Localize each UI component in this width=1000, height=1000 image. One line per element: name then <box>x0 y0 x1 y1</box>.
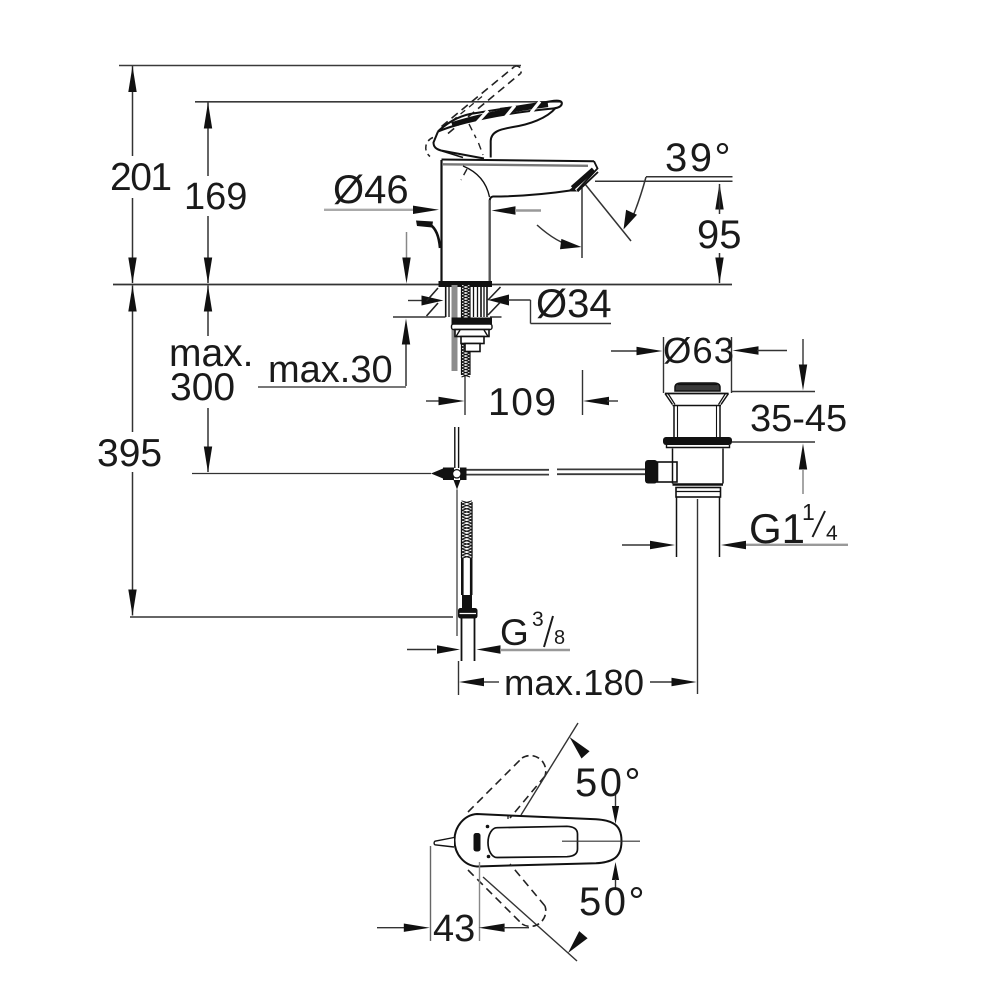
label 35-45 <box>750 398 847 440</box>
topview dashed lever down <box>468 864 546 926</box>
wire top reference line 201 <box>119 65 521 67</box>
faucet lever solid <box>438 101 562 158</box>
mounting washer <box>452 318 493 330</box>
wire spout vertical extension <box>581 188 583 258</box>
deck hatch left <box>427 288 439 316</box>
dim 50deg lower leg <box>483 877 588 961</box>
faucet hidden cartridge dashes <box>461 124 483 180</box>
dim 95 vertical <box>715 184 723 284</box>
topview hinge dots <box>486 825 491 859</box>
drain tailpipe <box>677 497 720 557</box>
label 201 <box>110 156 171 199</box>
label max30 <box>268 349 393 391</box>
label 109 <box>488 381 558 424</box>
horizontal actuating rod <box>467 469 646 474</box>
topview limiter tab <box>434 838 454 848</box>
dim D63 <box>611 337 787 393</box>
dim 50deg upper leg <box>521 723 590 815</box>
svg-text:50°: 50° <box>579 880 647 924</box>
svg-text:8: 8 <box>554 627 565 649</box>
label max300 <box>169 332 254 409</box>
svg-text:169: 169 <box>184 176 247 218</box>
label 50deg lower <box>579 880 647 924</box>
mounting nut <box>455 330 489 352</box>
label 169 <box>184 176 247 218</box>
svg-text:201: 201 <box>110 156 171 199</box>
faucet body outline <box>442 160 598 283</box>
label D34 <box>536 282 612 326</box>
drain plug cap <box>675 383 720 391</box>
faucet aerator tip <box>569 170 598 192</box>
topview dashed lever up <box>468 756 546 818</box>
label 43 <box>433 908 475 950</box>
topview centerline <box>562 840 640 842</box>
label G3/8 <box>500 608 565 653</box>
svg-text:35-45: 35-45 <box>750 398 847 440</box>
svg-text:300: 300 <box>170 366 235 409</box>
drain seal ring <box>663 437 732 448</box>
label 39deg <box>665 136 733 180</box>
dim 35-45 <box>732 339 815 494</box>
topview pivot bar <box>474 833 481 852</box>
svg-text:3: 3 <box>532 608 544 631</box>
svg-text:4: 4 <box>826 522 838 545</box>
dim 201 vertical <box>128 66 136 284</box>
flexible hose braided section <box>462 501 473 559</box>
svg-text:39°: 39° <box>665 136 733 180</box>
svg-text:G1: G1 <box>749 505 805 552</box>
flexible hose tube <box>458 558 478 661</box>
dim G1-1/4 <box>622 541 848 549</box>
dim max300 vertical <box>204 286 212 473</box>
deck hatch right <box>488 287 501 315</box>
dim D46 leader <box>324 206 541 215</box>
dim D34 leader <box>408 295 611 324</box>
label max180 <box>504 662 644 703</box>
svg-text:max.180: max.180 <box>504 662 644 703</box>
dim max180 <box>459 499 698 695</box>
svg-text:109: 109 <box>488 381 558 424</box>
svg-text:Ø34: Ø34 <box>536 282 612 326</box>
wire 395 bottom reference line <box>130 616 453 618</box>
drain flange <box>665 394 729 406</box>
max300 reference line <box>192 473 431 475</box>
faucet base gasket <box>439 281 493 287</box>
faucet dashed raised lever <box>442 66 522 133</box>
dim 169 vertical <box>204 103 212 284</box>
svg-text:max.30: max.30 <box>268 349 393 391</box>
wire 169 reference line <box>195 101 561 103</box>
faucet threaded shank <box>446 284 487 377</box>
svg-text:Ø46: Ø46 <box>333 168 409 212</box>
topview handle outline <box>454 814 621 867</box>
drain body <box>673 449 724 485</box>
svg-text:1: 1 <box>802 499 815 525</box>
label 50deg upper <box>575 761 643 805</box>
svg-text:43: 43 <box>433 908 475 950</box>
faucet lever base <box>426 132 484 159</box>
drain neck <box>674 406 720 437</box>
label D46 <box>333 168 409 212</box>
label D63 <box>663 330 735 371</box>
dim 39deg leader arrow <box>624 177 647 230</box>
svg-text:G: G <box>500 612 529 653</box>
label 395 <box>97 432 162 475</box>
topview width ticks <box>612 795 619 890</box>
pop-up ball joint <box>431 468 467 637</box>
wire deck underside line <box>393 316 502 318</box>
label 95 <box>697 213 742 257</box>
pop-up rod upper <box>455 427 459 468</box>
dim 109 <box>426 370 618 415</box>
dim 395 vertical <box>128 286 136 616</box>
dim 39deg arc <box>537 225 582 249</box>
svg-text:395: 395 <box>97 432 162 475</box>
label G1-1/4 <box>749 499 838 552</box>
svg-text:50°: 50° <box>575 761 643 805</box>
svg-text:95: 95 <box>697 213 742 257</box>
rod clamp knob <box>645 460 677 484</box>
topview handle inner recess <box>488 826 578 857</box>
faucet handle swing arc arrow <box>416 221 440 249</box>
drain collar <box>676 488 721 498</box>
wire spout stream line <box>585 184 631 241</box>
wire mounting deck line <box>113 284 732 286</box>
dim max30 leader <box>258 232 411 387</box>
dim G3/8 <box>407 645 570 653</box>
dim 43 <box>377 846 529 941</box>
svg-text:Ø63: Ø63 <box>663 330 735 371</box>
dim 39deg underline and outlet line <box>595 177 733 182</box>
